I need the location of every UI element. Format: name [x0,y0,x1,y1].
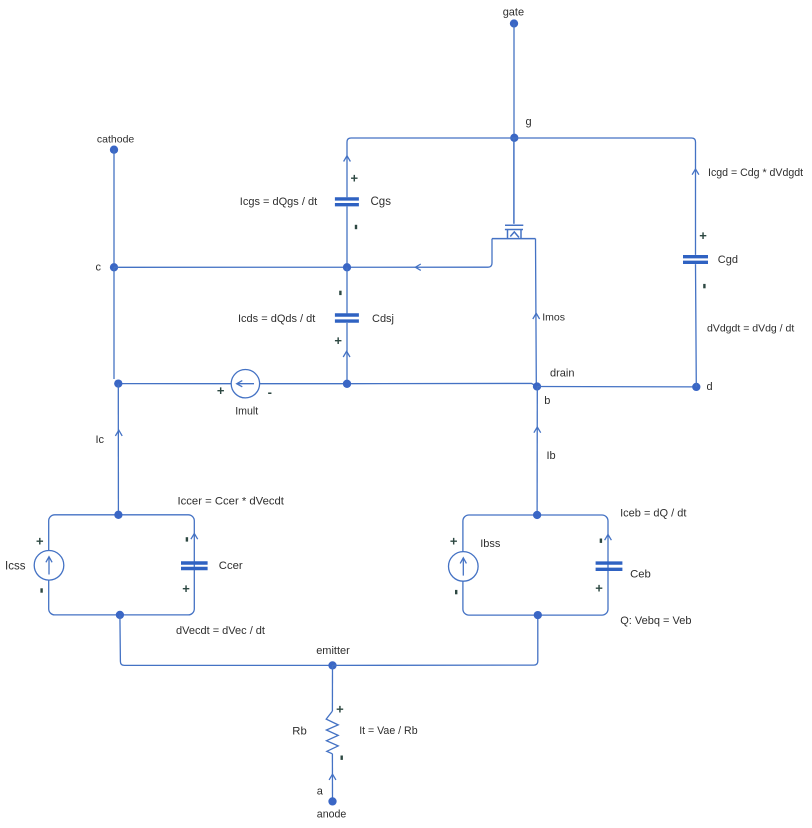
node mid left [114,379,122,387]
svg-text:emitter: emitter [316,645,350,657]
node c [110,263,118,271]
arrowhead Ceb up [605,535,612,541]
svg-text:+: + [334,333,342,348]
svg-text:+: + [699,228,707,243]
label minus tick Cgd [703,284,705,288]
svg-text:d: d [707,381,713,393]
wire gate to g [513,24,515,138]
svg-text:Cgd: Cgd [718,254,738,266]
arrowhead c row left [415,264,420,270]
wire Ic [113,267,115,379]
svg-text:Q: Vebq = Veb: Q: Vebq = Veb [620,615,691,627]
svg-text:+: + [36,534,44,549]
node d [692,383,700,391]
svg-text:dVecdt = dVec / dt: dVecdt = dVec / dt [176,625,265,637]
label minus tick Ccer [186,537,188,541]
svg-text:+: + [217,383,225,398]
wire mid row [118,383,537,386]
svg-text:+: + [450,533,458,548]
current source Icss [34,551,64,581]
label minus tick Rb [341,756,343,760]
svg-text:Rb: Rb [292,726,306,738]
node junction Cgs Cdsj [343,263,351,271]
wire left block to emitter row [120,615,333,666]
svg-text:+: + [351,171,359,186]
capacitor Cdsj [335,315,359,321]
wire drain to d [537,386,696,388]
node left block top [114,511,122,519]
arrowhead Ic up [115,430,122,436]
arrowhead Icgd up [692,169,699,175]
arrowhead Ccer up [191,534,198,540]
label minus tick Ceb [600,539,602,543]
node anode terminal [328,797,336,805]
wire Cdsj bottom to mid row [346,323,348,384]
mosfet M1 [492,138,536,239]
resistor Rb [326,711,338,754]
wire cathode to c [113,150,115,268]
arrowhead It up [329,774,336,780]
node cathode terminal [110,146,118,154]
label minus tick Cdsj [339,291,341,295]
node left block bottom [116,611,124,619]
wire mosfet drain column [536,239,538,387]
svg-text:anode: anode [317,809,347,821]
svg-text:Cdsj: Cdsj [372,313,394,325]
svg-text:Icds = dQds / dt: Icds = dQds / dt [238,313,315,325]
node drain b [533,382,541,390]
svg-text:b: b [544,395,550,407]
node g [510,134,518,142]
capacitor Cgs [335,199,359,205]
wire g row right and Cgd column [514,138,696,387]
svg-text:+: + [336,702,344,717]
node right block bottom [534,611,542,619]
capacitor Cgd [683,257,708,263]
node right block top [533,511,541,519]
wire mid left to block [117,384,119,515]
label minus tick Icss [40,588,42,592]
wire Rb to anode [331,754,333,802]
svg-text:Icgs = dQgs / dt: Icgs = dQgs / dt [240,196,317,208]
svg-text:c: c [96,261,102,273]
svg-text:gate: gate [503,7,524,19]
svg-text:Ceb: Ceb [630,568,651,580]
svg-text:a: a [317,786,324,798]
svg-text:drain: drain [550,367,574,379]
svg-text:g: g [526,116,532,128]
svg-text:cathode: cathode [97,133,135,145]
capacitor Ccer [181,563,208,569]
node junction Cdsj mid row [343,380,351,388]
svg-text:Imult: Imult [235,406,258,418]
wire c row from mosfet source [114,239,492,268]
wire Cgs bottom to c row [346,207,348,268]
svg-text:Ibss: Ibss [480,538,501,550]
arrowhead Cdsj up [343,351,350,357]
svg-text:-: - [268,385,272,400]
svg-text:Ib: Ib [547,450,556,462]
svg-text:Cgs: Cgs [371,196,392,208]
wire emitter row right to block [333,615,538,665]
wire g row left to Cgs column [347,138,514,197]
svg-text:Imos: Imos [542,311,565,323]
svg-text:Ic: Ic [96,434,105,446]
loop rect right Ibss Ceb [463,515,608,615]
svg-text:Iccer = Ccer * dVecdt: Iccer = Ccer * dVecdt [178,495,285,507]
arrowhead Imos up [533,313,540,319]
capacitor Ceb [596,563,623,569]
arrowhead Ib up [534,427,541,433]
svg-text:It = Vae / Rb: It = Vae / Rb [359,725,418,737]
label minus tick Cgs [355,225,357,229]
wire junction to Cdsj [346,267,348,313]
svg-text:Icss: Icss [5,560,26,572]
current source Ibss [449,552,479,582]
current source Imult [231,370,259,398]
node gate terminal [510,19,518,27]
wire Ib [536,387,538,516]
svg-text:Iceb = dQ / dt: Iceb = dQ / dt [620,507,686,519]
loop rect left Icss Ccer [49,515,195,615]
svg-text:Icgd = Cdg * dVdgdt: Icgd = Cdg * dVdgdt [708,167,803,179]
node emitter [328,661,336,669]
svg-text:Ccer: Ccer [219,560,243,572]
svg-text:+: + [595,581,603,596]
svg-text:+: + [182,581,190,596]
svg-text:dVdgdt = dVdg / dt: dVdgdt = dVdg / dt [707,323,794,335]
wire emitter to Rb [331,665,333,711]
label minus tick Ibss [455,590,457,594]
arrowhead Icgs up [344,156,351,162]
